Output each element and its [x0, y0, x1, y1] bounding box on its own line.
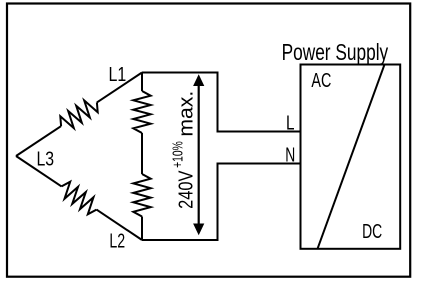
wire from node L3 down to resistor R4	[16, 156, 62, 186]
svg-text:Power Supply: Power Supply	[282, 39, 389, 65]
svg-text:L2: L2	[109, 230, 125, 252]
wire from node L3 up to resistor R3	[16, 126, 61, 156]
power supply unit U1 (AC/DC converter box)	[301, 65, 401, 249]
svg-text:DC: DC	[362, 221, 382, 243]
wire from node L2 to power supply neutral input	[142, 164, 301, 241]
svg-text:240V: 240V	[175, 170, 198, 209]
svg-text:N: N	[285, 144, 295, 166]
svg-text:L3: L3	[37, 148, 55, 170]
resistor R1 (upper winding between L1 and L2)	[133, 91, 150, 133]
resistor R3 (between L3 and L1)	[60, 100, 97, 128]
wire from node L1 down to resistor R1	[141, 73, 143, 92]
svg-text:L1: L1	[109, 64, 127, 86]
wire from node L1 to junction above power supply input	[142, 73, 301, 132]
svg-text:max.: max.	[175, 91, 198, 137]
svg-text:+10%: +10%	[170, 141, 187, 168]
voltage measurement arrow (double-headed)	[193, 74, 204, 235]
AC/DC converter divider line	[318, 65, 385, 249]
resistor R4 (between L3 and L2)	[62, 182, 97, 215]
voltage value label 240V +10% max.	[170, 91, 198, 209]
wire from resistor R4 to node L2	[97, 210, 143, 240]
wire from resistor R2 down to node L2	[141, 217, 143, 241]
wire between resistor R1 and resistor R2	[141, 133, 143, 174]
svg-text:L: L	[286, 113, 295, 135]
resistor R2 (lower winding between L1 and L2)	[133, 174, 150, 217]
wire from resistor R3 to node L1	[97, 73, 142, 103]
svg-text:AC: AC	[311, 70, 331, 92]
